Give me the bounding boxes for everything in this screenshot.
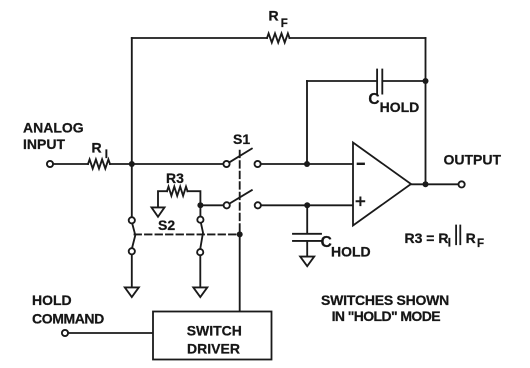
wire: S1 upper to op-amp minus input (261, 163, 353, 165)
switch S2 right: top contact (197, 217, 203, 223)
terminal: hold command (62, 330, 68, 336)
label RI (92, 140, 109, 161)
node: dashed link junction (237, 231, 243, 237)
wire: node to S1 lower left contact (200, 204, 223, 206)
ground arrow at R3 (152, 207, 165, 216)
svg-text:HOLD: HOLD (331, 243, 371, 259)
label S2 (158, 217, 175, 233)
wire: down to bottom hold capacitor (306, 205, 308, 233)
wire: input to RI (53, 163, 88, 165)
svg-text:INPUT: INPUT (23, 136, 65, 152)
switch S2 left: blade (closed) (132, 223, 135, 248)
wire: link junction to switch driver box (239, 234, 241, 311)
wire: R3 right lead down to node (188, 191, 201, 205)
terminal: analog input (47, 161, 53, 167)
svg-text:ANALOG: ANALOG (23, 120, 84, 136)
label equation R3 = RI || RF (405, 230, 485, 250)
svg-text:S2: S2 (158, 217, 175, 233)
wire: op-amp output (411, 183, 459, 185)
ground arrow at CHOLD bottom (300, 257, 314, 267)
capacitor CHOLD bottom (plates) (293, 234, 321, 241)
svg-text:OUTPUT: OUTPUT (444, 152, 502, 168)
svg-text:DRIVER: DRIVER (187, 340, 240, 356)
wire: bottom plate to ground (306, 242, 308, 257)
svg-text:R: R (269, 8, 279, 24)
wire: to CHOLD top left plate (307, 80, 376, 82)
svg-text:IN "HOLD" MODE: IN "HOLD" MODE (332, 308, 441, 324)
switch S1 lower: right contact (255, 202, 261, 208)
svg-text:R3: R3 (166, 170, 184, 186)
label R3 (166, 170, 184, 186)
svg-text:R3 = R: R3 = R (405, 230, 449, 246)
label HOLD COMMAND (32, 292, 104, 326)
svg-text:R: R (92, 140, 102, 156)
wire: hold command to switch driver (68, 332, 153, 334)
node: right vertical / cap junction (423, 78, 429, 84)
svg-text:S1: S1 (233, 131, 250, 147)
resistor RI (88, 159, 110, 168)
capacitor CHOLD top (plates) (377, 70, 382, 94)
ground arrow at S2 left (125, 287, 139, 297)
svg-text:HOLD: HOLD (380, 99, 420, 115)
label ANALOG INPUT (23, 120, 84, 152)
wire: RI to S1 upper left contact (110, 163, 223, 165)
terminal: output (459, 181, 465, 187)
label CHOLD top (368, 91, 419, 115)
switch S1 lower: blade (open) (230, 190, 252, 203)
op-amp plus sign (357, 198, 365, 206)
switch S2 left: bottom contact (129, 248, 135, 254)
dashed link: S1 blades to switch driver (239, 151, 241, 235)
label SWITCHES SHOWN IN HOLD MODE (321, 292, 449, 324)
label S1 (233, 131, 250, 147)
wire: CHOLD top right plate to right vertical (383, 80, 425, 82)
node: output / feedback junction (423, 181, 429, 187)
op-amp U1 (353, 143, 411, 226)
node: R3 / S2 / S1 lower junction (197, 202, 203, 208)
equation parallel bars (456, 226, 460, 245)
node: input summing junction (129, 161, 135, 167)
switch S1 lower: left contact (224, 202, 230, 208)
resistor RF (267, 33, 290, 42)
switch S1 upper: right contact (255, 161, 261, 167)
wire: left feedback vertical (131, 38, 133, 217)
svg-text:SWITCHES SHOWN: SWITCHES SHOWN (321, 292, 449, 308)
switch S2 right: bottom contact (197, 249, 203, 255)
ground arrow at S2 right (193, 287, 207, 297)
switch S1 upper: left contact (223, 161, 229, 167)
svg-text:HOLD: HOLD (32, 292, 72, 308)
switch S1 upper: blade (open) (230, 149, 252, 163)
node: plus input / hold cap bottom branch (304, 202, 310, 208)
svg-text:R: R (466, 230, 476, 246)
svg-text:F: F (281, 18, 288, 30)
svg-text:COMMAND: COMMAND (32, 311, 104, 327)
wire: node down to S2 right top contact (199, 205, 201, 216)
wire: vertical up to top hold capacitor (306, 81, 308, 164)
label SWITCH DRIVER (187, 323, 242, 357)
wire: S2 right to ground (199, 255, 201, 287)
resistor R3 (zigzag) (167, 187, 188, 196)
switch S2 right: blade (closed) (200, 223, 203, 249)
wire: S1 lower to op-amp plus input (261, 204, 353, 206)
svg-text:I: I (105, 149, 108, 161)
op-amp minus sign (358, 163, 364, 165)
dashed link: S2 blades horizontal (135, 233, 240, 235)
wire: top feedback horizontal right segment (290, 37, 426, 39)
label RF (269, 8, 288, 30)
node: minus input / hold cap top branch (304, 161, 310, 167)
svg-text:F: F (477, 238, 484, 250)
label CHOLD bottom (321, 234, 371, 259)
switch S2 left: top contact (129, 217, 135, 223)
wire: S2 left to ground (131, 254, 133, 287)
resistor R3: ground arrow lead (158, 191, 167, 207)
wire: right vertical (output to feedback) (425, 38, 427, 184)
svg-text:I: I (448, 238, 451, 250)
svg-text:SWITCH: SWITCH (187, 323, 242, 339)
wire: top feedback horizontal left segment (132, 37, 267, 39)
label OUTPUT (444, 152, 502, 168)
switch driver box (153, 312, 272, 360)
svg-text:C: C (368, 91, 379, 108)
